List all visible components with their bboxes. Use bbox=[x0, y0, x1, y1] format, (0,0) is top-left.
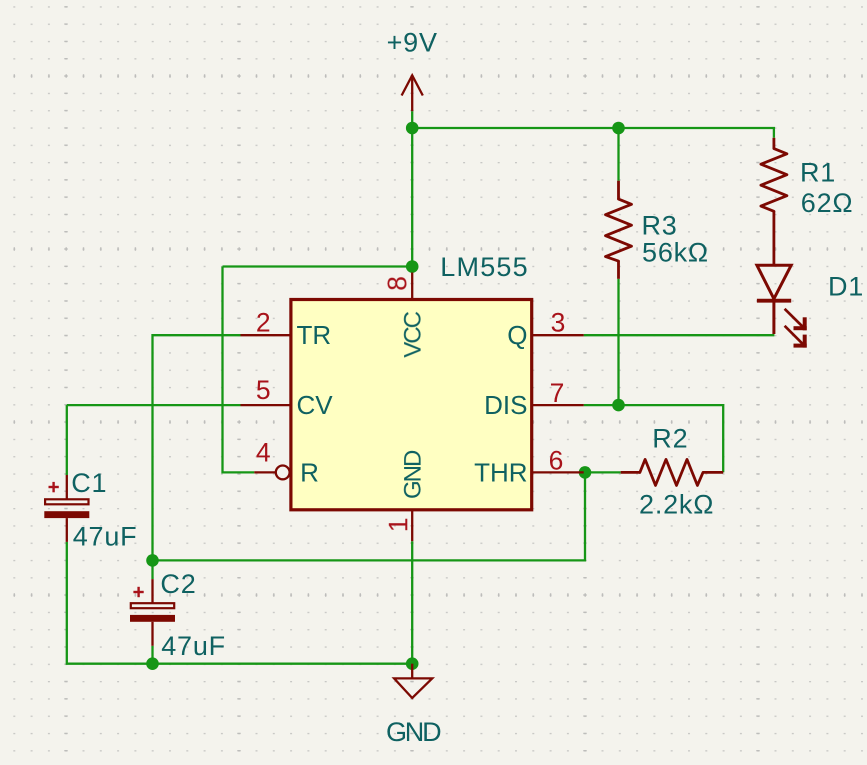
wire VCC/R net horizontal bbox=[223, 265, 413, 267]
svg-text:2.2kΩ: 2.2kΩ bbox=[639, 490, 714, 520]
wire C1 branch bbox=[66, 405, 68, 475]
ground symbol bbox=[394, 664, 432, 698]
pin 6 THR pin line bbox=[532, 471, 584, 473]
svg-text:6: 6 bbox=[549, 446, 564, 476]
wire THR to R2 bbox=[585, 471, 621, 473]
svg-text:7: 7 bbox=[550, 378, 565, 408]
svg-text:R3: R3 bbox=[642, 211, 678, 241]
svg-text:GND: GND bbox=[400, 450, 427, 499]
svg-text:CV: CV bbox=[297, 390, 334, 420]
wire +9V stem to rail bbox=[411, 111, 413, 266]
pin 5 CV pin line bbox=[241, 404, 291, 406]
node DIS junction bbox=[612, 399, 625, 412]
wire C1 bottom to ground rail bbox=[67, 542, 412, 664]
svg-text:5: 5 bbox=[256, 375, 271, 405]
node TR-C2 junction bbox=[146, 554, 159, 567]
wire R3 top bbox=[617, 128, 619, 181]
svg-text:56kΩ: 56kΩ bbox=[642, 238, 709, 268]
node C2-ground junction bbox=[146, 657, 159, 670]
pin 8 VCC pin line bbox=[411, 273, 413, 300]
svg-text:47uF: 47uF bbox=[161, 631, 226, 661]
resistor R3 bbox=[606, 181, 632, 279]
capacitor C2 bbox=[130, 579, 175, 646]
node GND junction bbox=[406, 657, 419, 670]
wire C2 top bbox=[151, 560, 153, 579]
svg-text:THR: THR bbox=[474, 458, 527, 488]
svg-text:1: 1 bbox=[383, 517, 413, 532]
LED D1 bbox=[757, 265, 791, 334]
node VCC pin junction bbox=[406, 260, 419, 273]
major grid columns bbox=[66, 0, 758, 765]
wire R3 bottom to DIS bbox=[617, 279, 619, 405]
svg-text:R2: R2 bbox=[652, 424, 688, 454]
wire TR bbox=[153, 335, 241, 560]
svg-text:LM555: LM555 bbox=[440, 252, 529, 282]
svg-text:VCC: VCC bbox=[400, 311, 427, 357]
svg-text:8: 8 bbox=[382, 276, 412, 291]
resistor R2 bbox=[621, 459, 724, 485]
wire GND pin 1 down bbox=[411, 541, 413, 664]
wire net VCC rail bbox=[67, 111, 775, 664]
svg-text:4: 4 bbox=[256, 438, 271, 468]
node rail-center junction bbox=[406, 122, 419, 135]
svg-text:2: 2 bbox=[256, 308, 271, 338]
svg-text:C2: C2 bbox=[160, 569, 196, 599]
svg-text:D1: D1 bbox=[828, 272, 864, 302]
svg-text:62Ω: 62Ω bbox=[801, 188, 854, 218]
wire THR down and across bbox=[153, 472, 586, 560]
svg-text:R1: R1 bbox=[800, 158, 836, 188]
capacitor C1 bbox=[44, 475, 89, 542]
wire CV bbox=[67, 404, 241, 406]
svg-text:47uF: 47uF bbox=[73, 522, 138, 552]
pin 2 TR pin line bbox=[241, 334, 291, 336]
major grid rows bbox=[0, 76, 867, 595]
C2 plus sign bbox=[133, 587, 143, 597]
C1 plus sign bbox=[49, 482, 59, 492]
wire Q to LED bbox=[584, 334, 775, 336]
node rail-R3 junction bbox=[612, 122, 625, 135]
op-amp U1: LM555 IC body bbox=[291, 300, 532, 510]
svg-text:C1: C1 bbox=[71, 468, 107, 498]
pin 7 DIS pin line bbox=[532, 404, 584, 406]
LED D1 emission arrows bbox=[785, 309, 807, 348]
resistor R1 bbox=[761, 138, 787, 265]
svg-text:TR: TR bbox=[297, 320, 332, 350]
svg-text:R: R bbox=[300, 458, 319, 488]
wire C2 bottom bbox=[151, 646, 153, 664]
svg-text:DIS: DIS bbox=[484, 390, 527, 420]
pin 4 R pin line with inversion bubble bbox=[254, 471, 275, 473]
pin 1 GND pin line bbox=[411, 510, 413, 541]
svg-text:GND: GND bbox=[386, 717, 441, 747]
svg-text:+9V: +9V bbox=[387, 28, 438, 58]
svg-text:3: 3 bbox=[551, 308, 566, 338]
wire R pin 4 bbox=[223, 267, 255, 473]
wire DIS to R2 vertical bbox=[584, 405, 724, 472]
svg-text:Q: Q bbox=[507, 320, 527, 350]
wire top rail bbox=[412, 128, 774, 138]
pin 3 Q pin line bbox=[532, 334, 584, 336]
power +9V symbol bbox=[402, 75, 423, 111]
node THR junction bbox=[579, 466, 592, 479]
